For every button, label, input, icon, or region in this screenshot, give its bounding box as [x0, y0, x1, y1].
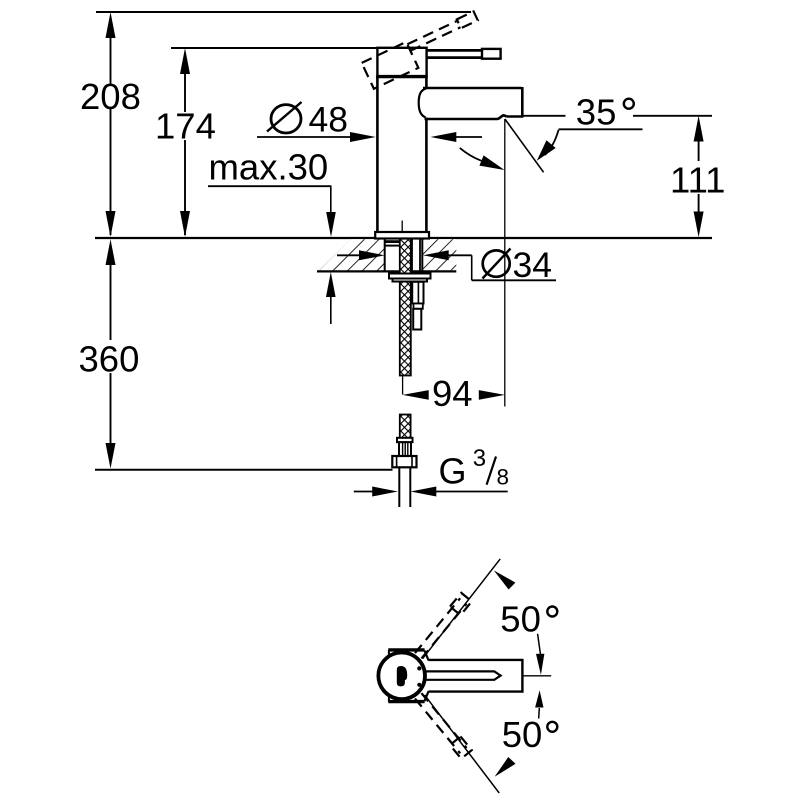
svg-text:34: 34: [513, 245, 553, 285]
top view centerline right: [523, 675, 552, 677]
faucet body left edge: [376, 76, 379, 232]
mounting nut below deck: [389, 274, 431, 282]
label 50 lower: [502, 714, 558, 755]
spout: [419, 87, 524, 119]
top view lever outer rectangle: [429, 660, 523, 692]
G 3/8 pipe end: [399, 467, 410, 507]
50 degree dimension line lower: [425, 695, 500, 793]
50 degree dimension line upper: [423, 559, 501, 659]
lower 50 arc arrow on line: [495, 757, 516, 777]
faucet body right edge upper: [425, 76, 428, 88]
svg-text:G: G: [439, 451, 467, 492]
upper 50 arc arrow on line: [494, 570, 516, 589]
node: deck hole right edge: [421, 239, 423, 272]
svg-text:50: 50: [502, 714, 543, 755]
svg-text:8: 8: [497, 464, 510, 489]
label 50 upper: [500, 599, 557, 640]
braided hose lower segment: [392, 415, 416, 468]
second supply hose below nut: [412, 282, 423, 330]
wire: faucet centerline below hose: [402, 376, 404, 395]
svg-text:35: 35: [576, 92, 617, 133]
lower 50 center arrow: [535, 690, 543, 718]
wire: countertop deck line: [95, 237, 712, 239]
svg-text:94: 94: [432, 373, 473, 414]
dimension G 3/8 arrows: [354, 487, 508, 497]
deck cross-section hatch left of hole: [317, 239, 456, 271]
dimension max.30 leader: [208, 186, 336, 324]
dashed raised handle: [362, 10, 486, 88]
svg-text:208: 208: [80, 76, 141, 117]
base flange: [375, 232, 429, 239]
wire: 35 degree spray line: [505, 119, 544, 172]
dimension Ø48 leader: [257, 132, 482, 142]
wire: aerator extension line (down to 94): [504, 119, 506, 407]
label G 3/8: [439, 445, 510, 492]
svg-text:max.30: max.30: [209, 147, 329, 188]
faucet body right edge lower: [425, 118, 428, 233]
dimension 94: [403, 390, 505, 400]
top view screw dots: [417, 666, 421, 670]
lever end cap (solid): [482, 49, 501, 59]
svg-text:48: 48: [309, 100, 349, 140]
braided supply hose upper: [400, 237, 411, 376]
svg-text:174: 174: [155, 106, 216, 147]
wire: extension line (174 reference, y=48): [171, 47, 378, 49]
top view lever rod: [426, 671, 501, 679]
dimension 360 line: [106, 239, 116, 468]
svg-text:360: 360: [79, 339, 140, 380]
label Ø48: [267, 100, 348, 140]
handle housing (solid): [376, 48, 427, 77]
svg-text:111: 111: [670, 160, 725, 201]
svg-text:50: 50: [500, 599, 541, 640]
top view body circle: [378, 653, 425, 700]
dimension Ø34 leader: [337, 250, 556, 280]
dashed lever rotated down 50: [413, 692, 472, 759]
wire: extension line top (208 reference, y=12): [96, 11, 471, 13]
sealing washer in hole: [386, 242, 401, 246]
top view lever hole D mark: [397, 666, 407, 686]
wire: faucet centerline above deck: [401, 221, 403, 238]
upper 50 center arrow: [536, 634, 544, 675]
dimension 174 line: [180, 48, 190, 237]
top view cartridge flats: [388, 650, 428, 702]
dashed lever rotated up 50: [413, 593, 472, 660]
threaded stud through deck: [412, 239, 420, 274]
label 35 degrees: [460, 92, 643, 171]
node: deck hole left edge: [384, 239, 386, 272]
wire: bottom reference line (360 end): [95, 469, 393, 471]
dimension 111 line: [523, 116, 712, 237]
svg-text:3: 3: [473, 445, 486, 472]
lever rod (solid): [427, 50, 482, 57]
label Ø34: [483, 245, 553, 285]
dimension 208 line: [106, 12, 116, 237]
